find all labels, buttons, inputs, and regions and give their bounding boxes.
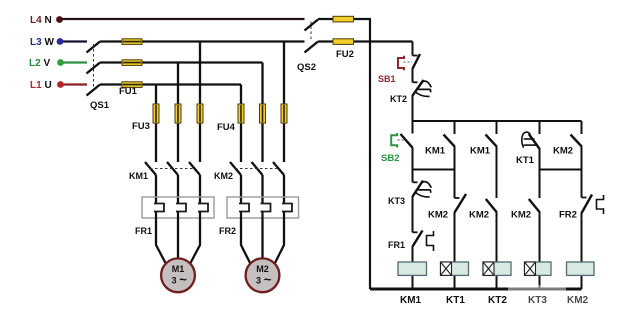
svg-text:L2 V: L2 V: [29, 58, 50, 69]
svg-text:KM2: KM2: [511, 210, 531, 221]
svg-text:KM1: KM1: [129, 171, 148, 181]
svg-text:3: 3: [171, 276, 176, 286]
svg-text:SB1: SB1: [378, 74, 396, 84]
svg-text:KT2: KT2: [488, 295, 507, 306]
svg-text:~: ~: [179, 272, 187, 287]
svg-text:FU4: FU4: [217, 122, 236, 133]
svg-text:KM2: KM2: [567, 295, 589, 306]
svg-text:KM2: KM2: [469, 210, 489, 221]
svg-text:KT3: KT3: [388, 196, 405, 206]
svg-text:KT2: KT2: [390, 94, 407, 104]
svg-text:FU1: FU1: [119, 86, 138, 97]
svg-text:L4 N: L4 N: [30, 15, 52, 26]
svg-text:QS2: QS2: [297, 62, 316, 73]
svg-text:KT1: KT1: [446, 295, 465, 306]
svg-text:FU3: FU3: [132, 121, 150, 132]
svg-text:3: 3: [256, 276, 261, 286]
svg-text:QS1: QS1: [90, 100, 110, 111]
svg-text:KM2: KM2: [214, 171, 233, 181]
svg-text:KT3: KT3: [528, 295, 547, 306]
svg-text:KM2: KM2: [553, 146, 573, 157]
svg-text:KT1: KT1: [516, 155, 535, 166]
svg-text:FR2: FR2: [559, 210, 577, 221]
svg-text:FU2: FU2: [336, 49, 354, 60]
svg-text:KM1: KM1: [400, 295, 422, 306]
svg-text:FR2: FR2: [219, 226, 236, 236]
svg-text:L3 W: L3 W: [30, 37, 54, 48]
svg-text:KM1: KM1: [425, 146, 446, 157]
svg-text:FR1: FR1: [135, 226, 152, 236]
svg-text:L1 U: L1 U: [30, 80, 52, 91]
svg-text:FR1: FR1: [388, 240, 405, 250]
svg-text:KM1: KM1: [470, 146, 491, 157]
svg-text:KM2: KM2: [428, 210, 448, 221]
svg-text:SB2: SB2: [381, 153, 399, 164]
svg-text:~: ~: [264, 272, 272, 287]
